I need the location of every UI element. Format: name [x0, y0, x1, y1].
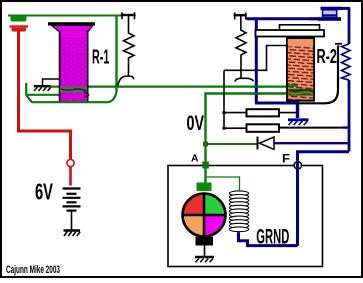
svg-text:6V: 6V [35, 179, 53, 205]
svg-text:Cajunn Mike 2003: Cajunn Mike 2003 [6, 264, 60, 276]
svg-text:R-1: R-1 [92, 47, 109, 69]
svg-text:R-2: R-2 [317, 46, 338, 68]
svg-text:F: F [282, 152, 290, 166]
svg-text:0V: 0V [187, 112, 205, 135]
svg-text:GRND: GRND [256, 225, 289, 249]
svg-text:A: A [191, 153, 199, 165]
